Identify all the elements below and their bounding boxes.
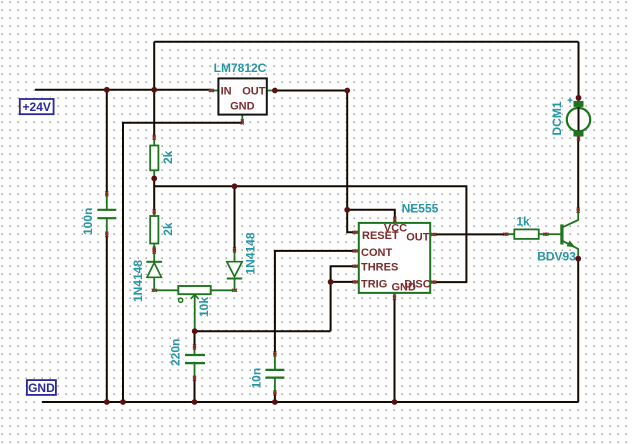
resistor 2k upper xyxy=(150,135,158,178)
svg-text:2k: 2k xyxy=(161,222,175,236)
svg-text:100n: 100n xyxy=(81,208,95,235)
svg-text:RESET: RESET xyxy=(362,230,399,242)
potentiometer 10k xyxy=(154,286,234,331)
junction at 2k tap xyxy=(151,87,157,93)
transistor Q1 BDV93 xyxy=(546,208,580,259)
net label GND xyxy=(27,380,56,395)
svg-text:2k: 2k xyxy=(161,150,175,164)
junction below upper 2k xyxy=(151,176,157,182)
wire 100n branch lower xyxy=(106,234,108,402)
timer U2 NE555 xyxy=(353,217,437,300)
wire 2k top drop xyxy=(153,90,155,138)
wire motor to collector xyxy=(577,138,579,210)
junction rail regulator gnd xyxy=(120,399,126,405)
svg-text:GND: GND xyxy=(230,100,255,112)
wire THRES branch xyxy=(331,266,355,331)
wire wiper node run xyxy=(195,330,331,332)
junction rail 100n xyxy=(104,399,110,405)
svg-text:1N4148: 1N4148 xyxy=(244,232,258,274)
svg-text:OUT: OUT xyxy=(406,232,430,244)
junction at OUT corner xyxy=(344,88,350,94)
wire top rail left drop to +24V line xyxy=(153,42,155,90)
svg-text:IN: IN xyxy=(221,85,232,97)
diode D2 1N4148 right xyxy=(227,248,242,292)
wire +24V feed to regulator IN xyxy=(35,89,211,91)
svg-text:1N4148: 1N4148 xyxy=(131,260,145,302)
wire divider node to DISC xyxy=(154,186,466,282)
junction rail 10n xyxy=(272,399,278,405)
svg-text:TRIG: TRIG xyxy=(361,278,387,290)
wire right diode drop xyxy=(234,186,236,250)
svg-text:DCM1: DCM1 xyxy=(550,101,564,135)
wire to VCC pin xyxy=(347,210,395,223)
wire regulator OUT run xyxy=(275,90,347,92)
resistor 2k lower xyxy=(150,209,158,251)
svg-text:1k: 1k xyxy=(516,214,530,228)
junction rail 555 gnd xyxy=(392,399,398,405)
svg-text:10k: 10k xyxy=(197,297,211,317)
svg-text:220n: 220n xyxy=(169,339,183,366)
junction right diode branch xyxy=(232,183,238,189)
wire 10n bottom xyxy=(274,393,276,402)
svg-text:BDV93: BDV93 xyxy=(537,250,576,264)
capacitor 100n xyxy=(97,191,116,236)
wire ground rail xyxy=(42,401,579,403)
junction wiper xyxy=(192,328,198,334)
junction emitter xyxy=(575,256,581,262)
svg-text:OUT: OUT xyxy=(242,85,266,97)
diode D1 1N4148 left xyxy=(146,249,162,292)
junction rail 220n xyxy=(192,399,198,405)
wire CONT to 10n xyxy=(275,251,355,354)
wire TRIG branch xyxy=(331,281,355,283)
svg-text:THRES: THRES xyxy=(361,262,398,274)
junction VCC RESET xyxy=(344,207,350,213)
svg-text:+24V: +24V xyxy=(23,100,51,114)
wire 100n branch upper xyxy=(106,90,108,194)
wire regulator GND down to ground rail xyxy=(123,123,242,402)
wire top rail right drop to motor xyxy=(578,42,580,98)
wire top rail from above LM7812C to motor xyxy=(154,41,578,43)
resistor R3 1k xyxy=(503,229,548,239)
wire 555 GND down xyxy=(394,297,396,402)
regulator U1 LM7812C xyxy=(209,78,275,124)
capacitor 220n xyxy=(185,345,205,381)
wire OUT drop to 555 supply xyxy=(346,91,348,210)
wire emitter to ground rail xyxy=(577,259,579,402)
wire to RESET pin xyxy=(347,210,354,233)
wire 220n bottom xyxy=(194,378,196,402)
junction TRIG xyxy=(328,279,334,285)
net label +24V xyxy=(20,99,54,114)
junction at regulator OUT xyxy=(272,88,278,94)
svg-text:LM7812C: LM7812C xyxy=(214,61,267,75)
svg-text:DISC: DISC xyxy=(404,278,430,290)
junction motor top xyxy=(576,95,582,101)
wire between 2k resistors xyxy=(153,178,155,211)
capacitor 10n xyxy=(265,352,284,396)
wire 220n top xyxy=(194,331,196,347)
wire 555 OUT to 1k xyxy=(434,233,506,235)
svg-text:CONT: CONT xyxy=(361,247,392,259)
svg-text:NE555: NE555 xyxy=(402,202,439,216)
motor M1 DCM1 xyxy=(567,98,590,141)
svg-text:GND: GND xyxy=(28,381,55,395)
junction at 100n tap xyxy=(104,87,110,93)
svg-text:10n: 10n xyxy=(250,368,264,389)
